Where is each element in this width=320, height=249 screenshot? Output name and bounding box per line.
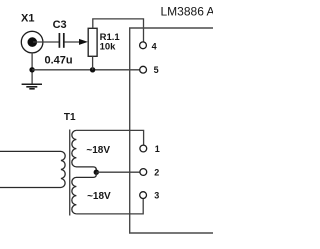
junction at pot bottom bbox=[90, 67, 95, 72]
wire C3 to R1.1 wiper bbox=[65, 41, 82, 43]
potentiometer R1.1 bbox=[88, 28, 97, 56]
wire pot top to pin 4 bbox=[93, 19, 144, 42]
pin 2 bbox=[140, 169, 147, 176]
wire X1 to C3 bbox=[33, 41, 59, 43]
svg-text:2: 2 bbox=[154, 167, 159, 177]
wire pot bottom to rail bbox=[92, 56, 94, 70]
pin 3 bbox=[140, 192, 147, 199]
connector X1 bbox=[21, 31, 43, 53]
amplifier module box LM3886 bbox=[130, 28, 213, 233]
capacitor C3 bbox=[59, 33, 63, 48]
transformer T1 secondary winding 1 bbox=[72, 130, 96, 172]
wire ground rail to pin 5 bbox=[32, 69, 140, 71]
svg-text:X1: X1 bbox=[21, 13, 34, 25]
svg-text:0.47u: 0.47u bbox=[45, 54, 73, 66]
svg-text:LM3886 Amp: LM3886 Amp bbox=[161, 5, 214, 19]
ground bbox=[22, 84, 42, 89]
transformer T1 secondary winding 2 bbox=[72, 172, 96, 214]
wire secondary bottom to pin 3 bbox=[76, 199, 143, 214]
wire secondary top to pin 1 bbox=[76, 130, 143, 145]
junction at X1 ground bbox=[29, 67, 34, 72]
pin 4 bbox=[140, 42, 147, 49]
svg-text:3: 3 bbox=[154, 191, 159, 201]
svg-text:1: 1 bbox=[155, 144, 160, 154]
wire center tap to pin 2 bbox=[96, 171, 140, 173]
pin 1 bbox=[140, 145, 147, 152]
transformer T1 core bbox=[69, 130, 71, 216]
pin 5 bbox=[140, 66, 147, 73]
svg-text:~18V: ~18V bbox=[87, 191, 111, 202]
wiper arrow of R1.1 bbox=[79, 39, 88, 45]
junction center tap bbox=[94, 170, 99, 175]
svg-text:4: 4 bbox=[152, 41, 157, 51]
svg-text:C3: C3 bbox=[53, 19, 67, 31]
svg-text:5: 5 bbox=[154, 65, 159, 75]
svg-text:~18V: ~18V bbox=[86, 145, 110, 156]
svg-text:10k: 10k bbox=[100, 41, 117, 52]
svg-text:T1: T1 bbox=[64, 112, 76, 123]
wire X1 down to ground bbox=[31, 53, 33, 84]
transformer T1 primary winding bbox=[0, 151, 65, 187]
